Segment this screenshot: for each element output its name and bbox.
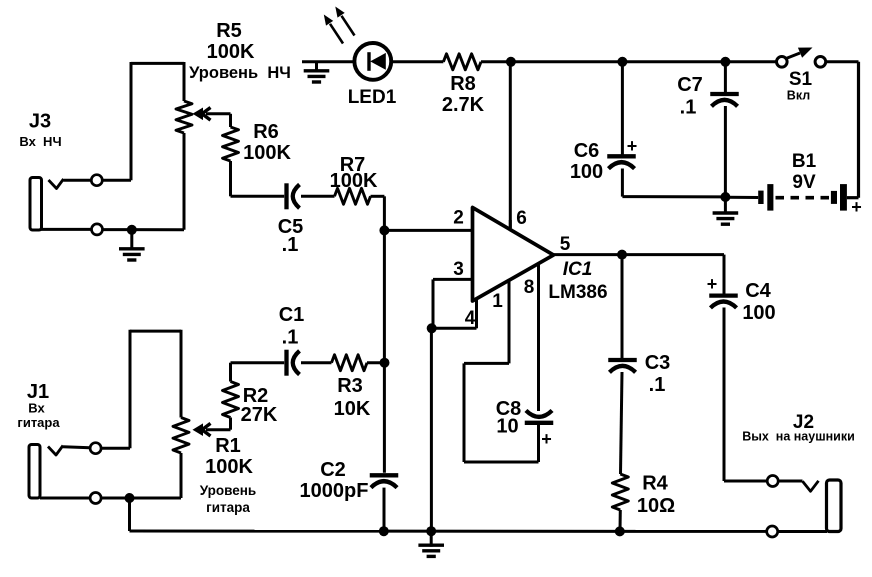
svg-text:R4: R4 [642, 473, 668, 495]
label pin 8 [524, 277, 535, 298]
label R6 value 100K [243, 142, 291, 164]
junction J1 ground node [125, 493, 135, 503]
wire top rail [481, 60, 782, 63]
svg-text:Уровень: Уровень [200, 483, 256, 498]
wire R2 top to C1 [231, 363, 285, 382]
label J1 function [17, 415, 60, 430]
potentiometer R1 body [173, 418, 189, 454]
wire R5 wiper arrow [193, 108, 231, 121]
resistor R3 body [332, 355, 368, 371]
svg-text:+: + [707, 274, 718, 294]
wire C4 to J2 tip [724, 308, 767, 482]
label C6 value 100 [570, 161, 603, 183]
svg-text:C6: C6 [574, 140, 600, 162]
label R1 value 100K [205, 456, 253, 478]
svg-text:C3: C3 [645, 352, 671, 374]
wire battery to riser [847, 196, 859, 199]
wire J2 sleeve to body [778, 530, 827, 533]
label C4 value 100 [742, 302, 775, 324]
battery B1 right cell [831, 184, 847, 211]
label R1 [215, 435, 241, 457]
label C7 [677, 74, 703, 96]
svg-text:Уровень НЧ: Уровень НЧ [189, 64, 291, 82]
wire pin 8 [537, 261, 540, 411]
svg-text:.1: .1 [680, 97, 697, 119]
terminal S1 right [815, 57, 826, 68]
svg-text:R5: R5 [216, 20, 242, 42]
label C7 value .1 [680, 97, 697, 119]
svg-text:.1: .1 [282, 234, 299, 256]
label R4 value 10 [637, 495, 675, 517]
resistor R7 body [335, 188, 371, 204]
junction R4 bottom rail [615, 526, 625, 536]
svg-text:+: + [541, 429, 552, 449]
svg-text:100K: 100K [243, 142, 291, 164]
wire C6 to bottom node [622, 169, 725, 197]
LED LED1 light arrow 1 [324, 15, 343, 44]
jack J2 body [827, 480, 842, 532]
svg-text:8: 8 [524, 277, 535, 298]
label C4 [745, 280, 771, 302]
label B1 plus [851, 197, 862, 217]
label R8 value 2.7K [442, 94, 485, 116]
label C5 value .1 [282, 234, 299, 256]
label IC1 [563, 259, 593, 280]
junction top rail pin6 [506, 57, 516, 67]
svg-text:LM386: LM386 [548, 282, 607, 303]
junction node B C1-R3 [380, 358, 390, 368]
svg-text:2: 2 [453, 208, 464, 229]
svg-text:гитара: гитара [17, 415, 60, 430]
terminal J2 tip [767, 476, 778, 487]
junction output node [617, 250, 627, 260]
wire pin 4 [432, 299, 477, 328]
wire R1 bottom lead [180, 453, 183, 498]
wire J3 sleeve row [41, 228, 92, 231]
jack J3 tip contact [49, 179, 64, 189]
wire S1 to battery riser [826, 62, 859, 198]
svg-text:1000pF: 1000pF [300, 480, 369, 502]
label J2 [793, 412, 814, 433]
wire output to C4 [723, 255, 726, 294]
wire ground to LED1 [302, 60, 355, 63]
svg-text:+: + [851, 197, 862, 217]
terminal J2 sleeve [767, 526, 778, 537]
wire riser J1 to R1 top [130, 330, 181, 449]
svg-text:100: 100 [742, 302, 775, 324]
label R2 value 27K [241, 404, 278, 426]
svg-text:1: 1 [492, 291, 503, 312]
junction node A pin2 [379, 225, 389, 235]
label R3 [337, 375, 363, 397]
wire R7 to node A [371, 196, 385, 230]
label J1 [27, 381, 49, 403]
wire output pin 5 [554, 253, 725, 256]
svg-text:R1: R1 [215, 435, 241, 457]
label J3 [29, 111, 51, 133]
svg-text:10Ω: 10Ω [637, 495, 675, 517]
wire R1 wiper arrow [193, 423, 231, 436]
wire riser J3 to R5 top [131, 62, 184, 180]
wire pin 2 [384, 229, 472, 232]
label C8 plus [541, 429, 552, 449]
svg-text:C4: C4 [745, 280, 771, 302]
wire C2 to bottom rail [383, 488, 386, 531]
svg-text:+: + [627, 136, 638, 156]
terminal J3 tip [91, 175, 102, 186]
svg-text:3: 3 [453, 259, 464, 280]
svg-text:C7: C7 [677, 74, 703, 96]
capacitor C4 plates [709, 296, 738, 308]
label C8 [496, 398, 522, 420]
wire pin 6 [509, 62, 512, 228]
label R5 function [189, 64, 291, 82]
wire rail to C7 [724, 62, 727, 92]
label R2 [243, 385, 269, 407]
junction power bottom node [720, 192, 730, 202]
label C1 [279, 304, 305, 326]
terminal J1 sleeve [90, 493, 101, 504]
switch S1 arm [786, 48, 813, 59]
label C2 [320, 459, 346, 481]
terminal J3 sleeve [92, 224, 103, 235]
wire R3 to node B [367, 361, 385, 364]
wire C7 to bottom node [724, 106, 727, 197]
wire bottom rail [130, 530, 767, 533]
wire J1 node to bottom rail [128, 498, 131, 531]
wire J2 tip contact [778, 481, 818, 492]
wire J3 tip to terminal [64, 179, 92, 182]
svg-text:C1: C1 [279, 304, 305, 326]
wire node to battery [725, 196, 758, 199]
label LED1 [348, 87, 397, 108]
svg-text:.1: .1 [282, 327, 299, 349]
svg-text:J3: J3 [29, 111, 51, 133]
svg-text:27K: 27K [241, 404, 278, 426]
wire J3 tip terminal to riser [102, 179, 131, 182]
label B1 [792, 151, 817, 172]
label C1 value .1 [282, 327, 299, 349]
svg-text:B1: B1 [792, 151, 817, 172]
junction ground bottom rail [426, 526, 436, 536]
svg-text:IC1: IC1 [563, 259, 593, 280]
jack J3 body [30, 178, 42, 231]
wire pin 3 [433, 279, 472, 328]
svg-text:R6: R6 [253, 121, 279, 143]
label R7 value 100K [330, 170, 378, 192]
ground power node [713, 197, 739, 224]
LED LED1 diode [369, 52, 386, 71]
label pin 6 [516, 208, 527, 229]
svg-text:гитара: гитара [206, 500, 250, 515]
wire J1 tip to terminal [63, 447, 90, 448]
svg-text:5: 5 [560, 234, 571, 255]
ground bottom rail [418, 531, 444, 556]
svg-text:6: 6 [516, 208, 527, 229]
wire R4 to bottom rail [619, 510, 622, 531]
LED LED1 body [354, 43, 391, 80]
label LM386 [548, 282, 607, 303]
label B1 value 9V [792, 172, 816, 193]
label R3 value 10K [334, 398, 371, 420]
svg-text:2.7K: 2.7K [442, 94, 485, 116]
wire J1 sleeve terminal to pot [101, 497, 181, 500]
label R7 [340, 154, 366, 176]
wire pin 1 [464, 278, 539, 462]
ground J3 [119, 230, 145, 260]
label pin 4 [465, 308, 476, 329]
capacitor C5 plates [287, 183, 300, 209]
label pin 2 [453, 208, 464, 229]
wire C3 to R4 [621, 372, 623, 474]
battery B1 left cell [758, 184, 773, 211]
wire pin 6 stub into triangle [509, 220, 512, 232]
label S1 function [787, 89, 810, 103]
capacitor C3 plates [608, 360, 637, 372]
wire C5 to R7 [301, 195, 335, 198]
label J1 input [28, 401, 45, 416]
wire node A vertical [383, 230, 386, 472]
svg-text:R3: R3 [337, 375, 363, 397]
label C4 plus [707, 274, 718, 294]
svg-text:10: 10 [496, 416, 518, 438]
label pin 5 [560, 234, 571, 255]
label C8 value 10 [496, 416, 518, 438]
capacitor C7 plates [710, 94, 739, 106]
label C3 value .1 [649, 374, 666, 396]
svg-text:.1: .1 [649, 374, 666, 396]
svg-text:10K: 10K [334, 398, 371, 420]
capacitor C2 plates [370, 475, 399, 487]
capacitor C6 plates [607, 156, 636, 168]
junction J3 ground node [127, 225, 137, 235]
junction top rail C6 [617, 57, 627, 67]
label S1 [789, 69, 813, 90]
label R1 function 2 [206, 500, 250, 515]
label C3 [645, 352, 671, 374]
wire R6 bottom to C5 [231, 161, 285, 196]
label R5 [216, 20, 242, 42]
wire R5 bottom lead [183, 133, 186, 230]
svg-text:100K: 100K [205, 456, 253, 478]
svg-text:C2: C2 [320, 459, 346, 481]
svg-text:9V: 9V [792, 172, 816, 193]
svg-text:Вх: Вх [28, 401, 45, 416]
resistor R6 body [223, 127, 239, 161]
svg-text:100K: 100K [330, 170, 378, 192]
label R4 [642, 473, 668, 495]
svg-text:LED1: LED1 [348, 87, 397, 108]
capacitor C1 plates [287, 350, 300, 376]
svg-text:100K: 100K [207, 41, 255, 63]
potentiometer R5 body [176, 101, 192, 133]
svg-text:S1: S1 [789, 69, 813, 90]
label C6 [574, 140, 600, 162]
label R6 [253, 121, 279, 143]
label C6 plus [627, 136, 638, 156]
label pin 3 [453, 259, 464, 280]
jack J1 tip contact [48, 446, 63, 456]
label C2 value 1000pF [300, 480, 369, 502]
LED LED1 light arrow 2 [335, 7, 354, 36]
resistor R2 body [223, 382, 239, 418]
capacitor C8 plates [525, 411, 554, 423]
junction pins 3-4 [427, 323, 437, 333]
op-amp IC1 triangle [473, 208, 554, 302]
terminal S1 left [777, 57, 788, 68]
junction top rail C7 [720, 57, 730, 67]
label pin 1 [492, 291, 503, 312]
wire LED1 to R8 [391, 60, 443, 63]
label C5 [278, 216, 304, 238]
jack J1 body [29, 445, 40, 499]
junction C2 bottom rail [379, 526, 389, 536]
label J3 function [19, 134, 61, 149]
svg-text:100: 100 [570, 161, 603, 183]
terminal J1 tip [90, 443, 101, 454]
resistor R8 body [443, 54, 481, 70]
wire rail to C6 [621, 62, 624, 155]
label R5 value 100K [207, 41, 255, 63]
svg-text:Вх НЧ: Вх НЧ [19, 134, 61, 149]
svg-text:R8: R8 [450, 73, 476, 95]
battery B1 dashed link [776, 196, 830, 200]
svg-text:Вых на наушники: Вых на наушники [742, 430, 855, 444]
wire pins 3-4 to bottom rail [430, 328, 433, 531]
resistor R4 body [612, 474, 628, 510]
wire J1 tip terminal to riser [101, 447, 130, 450]
wire output to C3 [621, 255, 624, 358]
wire C8 to loop [537, 423, 540, 462]
svg-text:4: 4 [465, 308, 476, 329]
label R8 [450, 73, 476, 95]
wire R2 bottom lead [229, 418, 232, 430]
svg-text:Вкл: Вкл [787, 89, 810, 103]
wire C1 to R3 [301, 361, 332, 364]
wire J1 sleeve row [40, 497, 90, 500]
wire J3 sleeve terminal to pot [103, 228, 184, 231]
wire R6 top lead [229, 114, 232, 127]
label R1 function 1 [200, 483, 256, 498]
ground LED [304, 62, 330, 82]
label J2 function [742, 430, 855, 444]
